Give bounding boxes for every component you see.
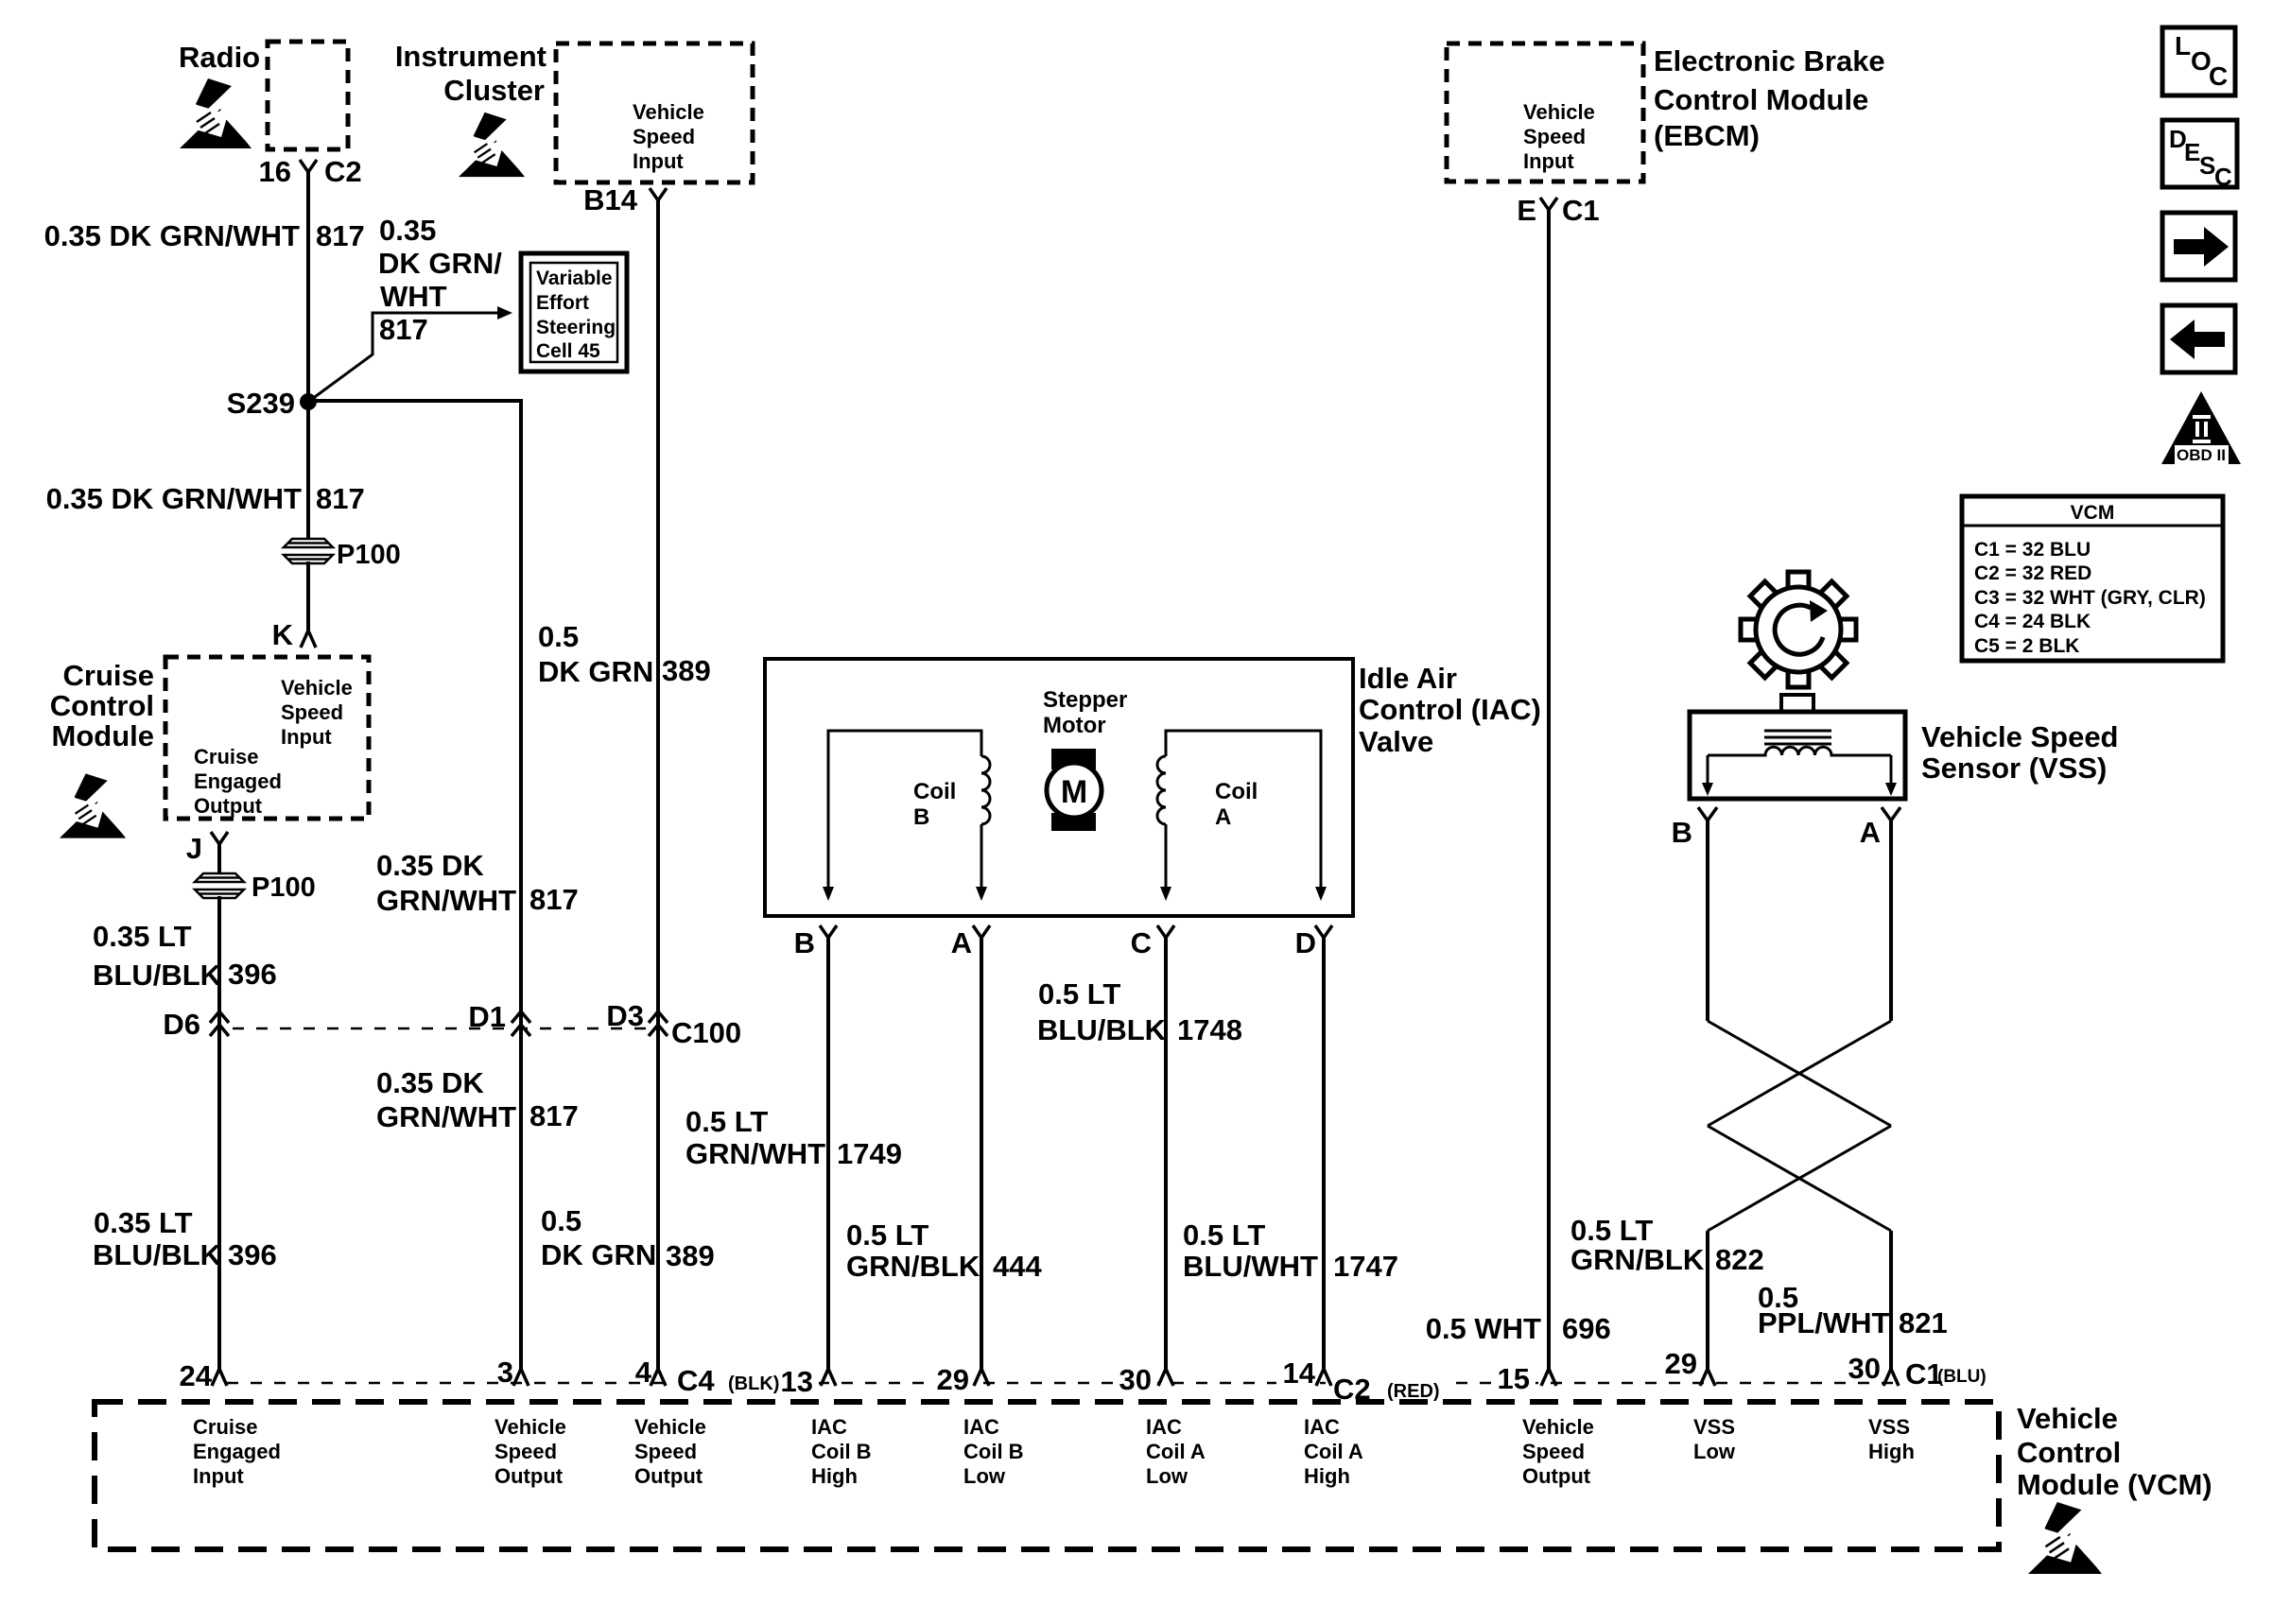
connector C100 dashed line <box>233 1028 649 1030</box>
svg-text:C100: C100 <box>671 1016 741 1049</box>
svg-text:389: 389 <box>662 654 711 687</box>
svg-text:(EBCM): (EBCM) <box>1654 119 1760 152</box>
svg-text:0.5 WHT: 0.5 WHT <box>1426 1312 1541 1345</box>
svg-text:Speed: Speed <box>634 1440 697 1463</box>
svg-text:817: 817 <box>529 1099 579 1132</box>
svg-text:B14: B14 <box>583 183 638 216</box>
wire VSS A down <box>1889 821 1893 1021</box>
svg-text:821: 821 <box>1899 1306 1948 1339</box>
svg-text:C2: C2 <box>324 155 362 188</box>
svg-text:Coil: Coil <box>1215 779 1258 804</box>
svg-text:0.35 DK GRN/WHT: 0.35 DK GRN/WHT <box>44 219 300 252</box>
VCM pin row dashed line <box>227 1382 1897 1385</box>
svg-text:C5 = 2 BLK: C5 = 2 BLK <box>1974 635 2079 657</box>
svg-text:0.5 LT: 0.5 LT <box>846 1218 928 1252</box>
ESD symbol (VCM) <box>2028 1502 2105 1574</box>
Electronic Brake Control Module (EBCM) dashed box <box>1447 43 1643 181</box>
svg-text:Engaged: Engaged <box>194 769 282 793</box>
DESC icon <box>2162 120 2237 187</box>
svg-text:(RED): (RED) <box>1387 1381 1440 1402</box>
svg-text:Motor: Motor <box>1043 713 1106 738</box>
connector D3 chevrons <box>649 1011 668 1036</box>
svg-text:14: 14 <box>1283 1356 1316 1390</box>
LOC icon <box>2162 27 2235 95</box>
svg-text:Cluster: Cluster <box>443 74 545 107</box>
svg-text:PPL/WHT: PPL/WHT <box>1758 1306 1890 1339</box>
svg-text:C2 = 32 RED: C2 = 32 RED <box>1974 562 2091 584</box>
svg-text:GRN/WHT: GRN/WHT <box>376 1100 516 1133</box>
svg-text:Vehicle: Vehicle <box>633 100 704 124</box>
svg-text:0.5: 0.5 <box>541 1204 581 1237</box>
svg-text:24: 24 <box>180 1359 213 1392</box>
Vehicle Control Module (VCM) dashed box <box>95 1402 1999 1549</box>
pin K connector <box>301 631 316 648</box>
svg-text:Output: Output <box>495 1464 564 1488</box>
svg-text:L: L <box>2175 31 2191 60</box>
pass-through grommet P100 (lower) <box>195 873 244 898</box>
svg-text:Coil B: Coil B <box>811 1440 872 1463</box>
svg-text:0.35 DK: 0.35 DK <box>376 849 484 882</box>
label masks over dashed line <box>671 1359 1536 1405</box>
VSS coil <box>1708 747 1891 755</box>
svg-text:Vehicle: Vehicle <box>2017 1402 2118 1435</box>
forward arrow icon <box>2162 213 2235 280</box>
svg-text:Coil A: Coil A <box>1304 1440 1363 1463</box>
wire 821 to VCM 30 <box>1889 1231 1893 1369</box>
wire 817 from S239 branch down to VCM pin 3 <box>308 401 521 1369</box>
svg-text:C: C <box>2209 61 2228 91</box>
wire 822 to VCM 29 <box>1706 1231 1709 1369</box>
svg-text:0.5 LT: 0.5 LT <box>1183 1218 1265 1252</box>
svg-text:High: High <box>811 1464 858 1488</box>
svg-text:BLU/BLK: BLU/BLK <box>93 1238 222 1271</box>
svg-text:Output: Output <box>1522 1464 1591 1488</box>
svg-text:30: 30 <box>1848 1352 1881 1385</box>
svg-text:389: 389 <box>666 1239 715 1272</box>
svg-text:Coil B: Coil B <box>963 1440 1024 1463</box>
wire IAC A to VCM 29 <box>980 938 983 1369</box>
svg-text:29: 29 <box>1665 1347 1697 1380</box>
svg-text:0.35 DK GRN/WHT: 0.35 DK GRN/WHT <box>46 482 302 515</box>
svg-text:Electronic Brake: Electronic Brake <box>1654 44 1885 78</box>
svg-text:E: E <box>1517 194 1536 227</box>
svg-text:GRN/WHT: GRN/WHT <box>685 1137 825 1170</box>
svg-text:P100: P100 <box>252 872 316 903</box>
Variable Effort Steering Cell 45 reference box <box>521 253 627 371</box>
svg-text:Low: Low <box>1146 1464 1189 1488</box>
svg-text:Control Module: Control Module <box>1654 83 1868 116</box>
svg-text:Vehicle Speed: Vehicle Speed <box>1921 720 2119 753</box>
svg-text:0.5 LT: 0.5 LT <box>1038 977 1120 1011</box>
svg-text:1747: 1747 <box>1333 1250 1398 1283</box>
coil A <box>1166 731 1321 889</box>
svg-text:Variable: Variable <box>536 268 613 289</box>
svg-text:DK GRN: DK GRN <box>538 655 653 688</box>
svg-text:Cruise: Cruise <box>193 1415 257 1439</box>
svg-text:A: A <box>1860 816 1881 849</box>
svg-text:B: B <box>913 804 929 830</box>
svg-text:Module (VCM): Module (VCM) <box>2017 1468 2212 1501</box>
svg-text:Coil: Coil <box>913 779 956 804</box>
svg-text:M: M <box>1061 774 1087 810</box>
svg-text:817: 817 <box>529 883 579 916</box>
svg-text:C1: C1 <box>1562 194 1600 227</box>
svg-text:C4: C4 <box>677 1364 715 1397</box>
wire P100 to K <box>306 561 310 631</box>
twisted pair crossover <box>1708 1021 1891 1231</box>
svg-text:Speed: Speed <box>495 1440 557 1463</box>
svg-text:C: C <box>2214 163 2232 191</box>
svg-text:Control (IAC): Control (IAC) <box>1359 693 1541 726</box>
svg-text:IAC: IAC <box>1304 1415 1340 1439</box>
svg-text:Input: Input <box>193 1464 244 1488</box>
svg-text:Speed: Speed <box>1523 125 1586 148</box>
svg-text:D1: D1 <box>468 1000 506 1033</box>
svg-text:Input: Input <box>1523 149 1574 173</box>
svg-text:1748: 1748 <box>1177 1013 1242 1046</box>
svg-text:Module: Module <box>52 719 155 752</box>
svg-text:Instrument: Instrument <box>395 40 547 73</box>
svg-text:Speed: Speed <box>1522 1440 1585 1463</box>
svg-text:Vehicle: Vehicle <box>281 676 353 700</box>
svg-text:13: 13 <box>781 1365 813 1398</box>
svg-text:Cell 45: Cell 45 <box>536 340 600 362</box>
svg-text:BLU/BLK: BLU/BLK <box>1037 1013 1167 1046</box>
wire 396 from P100 to VCM pin 24 <box>217 896 221 1369</box>
svg-text:A: A <box>1215 804 1231 830</box>
pin E connector <box>1540 198 1557 210</box>
svg-text:Cruise: Cruise <box>194 745 258 769</box>
VSS core lines <box>1764 730 1831 733</box>
svg-text:Engaged: Engaged <box>193 1440 281 1463</box>
svg-text:822: 822 <box>1715 1243 1764 1276</box>
wire 696 from EBCM to VCM 15 <box>1547 210 1551 1369</box>
svg-text:A: A <box>951 926 972 959</box>
svg-text:Effort: Effort <box>536 292 589 314</box>
svg-text:Cruise: Cruise <box>63 659 154 692</box>
svg-text:VSS: VSS <box>1868 1415 1910 1439</box>
wire 817 from radio C2 to S239 <box>306 172 310 402</box>
svg-text:Input: Input <box>281 725 332 749</box>
svg-text:B: B <box>1672 816 1692 849</box>
svg-text:15: 15 <box>1498 1362 1530 1395</box>
svg-text:Stepper: Stepper <box>1043 687 1127 713</box>
svg-text:444: 444 <box>993 1250 1042 1283</box>
svg-text:Radio: Radio <box>179 41 260 74</box>
svg-text:K: K <box>272 618 294 651</box>
svg-text:0.35 LT: 0.35 LT <box>93 920 192 953</box>
svg-text:GRN/WHT: GRN/WHT <box>376 884 516 917</box>
wire J to P100 <box>217 844 221 875</box>
svg-text:0.35: 0.35 <box>379 214 436 247</box>
svg-text:BLU/BLK: BLU/BLK <box>93 959 222 992</box>
svg-text:0.35 DK: 0.35 DK <box>376 1066 484 1099</box>
wire branch from S239 to Variable Effort Steering arrow <box>308 313 498 402</box>
svg-text:Vehicle: Vehicle <box>1523 100 1595 124</box>
svg-text:E: E <box>2184 138 2200 166</box>
svg-text:DK GRN/: DK GRN/ <box>378 247 502 280</box>
svg-text:Vehicle: Vehicle <box>1522 1415 1594 1439</box>
wire from S239 down to P100 <box>306 402 310 541</box>
svg-text:Input: Input <box>633 149 684 173</box>
Instrument Cluster dashed box <box>556 43 753 182</box>
svg-text:GRN/BLK: GRN/BLK <box>1570 1243 1705 1276</box>
wire 389 from B14 to VCM pin 4 <box>656 200 660 1369</box>
connector D6 chevrons <box>210 1011 229 1036</box>
svg-text:C3 = 32 WHT (GRY, CLR): C3 = 32 WHT (GRY, CLR) <box>1974 587 2206 609</box>
svg-text:0.5 LT: 0.5 LT <box>685 1105 768 1138</box>
wire VSS B down <box>1706 821 1709 1021</box>
svg-text:Output: Output <box>194 794 263 818</box>
wire 444 IAC B to VCM 13 <box>826 938 830 1369</box>
svg-text:High: High <box>1868 1440 1915 1463</box>
svg-text:IAC: IAC <box>963 1415 999 1439</box>
ESD symbol (Radio) <box>180 78 254 148</box>
svg-text:P100: P100 <box>337 540 401 570</box>
svg-text:BLU/WHT: BLU/WHT <box>1183 1250 1318 1283</box>
svg-text:VCM: VCM <box>2071 502 2115 524</box>
svg-text:817: 817 <box>316 482 365 515</box>
svg-text:J: J <box>186 832 202 865</box>
svg-text:4: 4 <box>635 1356 652 1389</box>
svg-text:Speed: Speed <box>281 700 343 724</box>
svg-text:IAC: IAC <box>1146 1415 1182 1439</box>
ESD symbol (Cruise Control Module) <box>60 773 129 838</box>
svg-text:Idle Air: Idle Air <box>1359 662 1457 695</box>
VCM connector table <box>1962 496 2223 661</box>
coil B <box>828 731 981 889</box>
svg-text:High: High <box>1304 1464 1350 1488</box>
svg-text:(BLU): (BLU) <box>1937 1367 1987 1387</box>
svg-text:D: D <box>1295 926 1316 959</box>
svg-text:817: 817 <box>379 313 428 346</box>
svg-text:0.5 LT: 0.5 LT <box>1570 1214 1653 1247</box>
svg-text:C4 = 24 BLK: C4 = 24 BLK <box>1974 611 2091 632</box>
svg-text:0.35 LT: 0.35 LT <box>94 1206 193 1239</box>
svg-text:30: 30 <box>1119 1363 1152 1396</box>
Vehicle Speed Sensor (VSS) <box>1781 695 1813 714</box>
reluctor gear icon <box>1741 572 1856 687</box>
svg-text:C1 = 32 BLU: C1 = 32 BLU <box>1974 539 2091 561</box>
svg-text:Valve: Valve <box>1359 725 1433 758</box>
svg-text:S239: S239 <box>227 387 295 420</box>
svg-text:Vehicle: Vehicle <box>634 1415 706 1439</box>
svg-text:Steering: Steering <box>536 317 616 338</box>
svg-text:Low: Low <box>963 1464 1006 1488</box>
svg-text:696: 696 <box>1562 1312 1611 1345</box>
svg-text:817: 817 <box>316 219 365 252</box>
svg-text:WHT: WHT <box>380 280 447 313</box>
svg-text:DK GRN: DK GRN <box>541 1238 656 1271</box>
stepper motor M <box>1051 749 1096 769</box>
svg-text:Vehicle: Vehicle <box>495 1415 566 1439</box>
Radio module dashed box <box>268 42 348 149</box>
Cruise Control Module dashed box <box>165 657 369 819</box>
svg-text:Control: Control <box>50 689 154 722</box>
svg-text:0.5: 0.5 <box>538 620 579 653</box>
svg-text:B: B <box>794 926 815 959</box>
wire IAC C to VCM 30 <box>1164 938 1168 1369</box>
svg-text:396: 396 <box>228 958 277 991</box>
connector C2 pin Y <box>300 160 317 172</box>
svg-text:396: 396 <box>228 1238 277 1271</box>
OBD II icon <box>2161 391 2241 464</box>
pass-through grommet P100 <box>284 539 333 563</box>
svg-text:Coil A: Coil A <box>1146 1440 1206 1463</box>
svg-text:Low: Low <box>1693 1440 1736 1463</box>
pin J connector <box>211 832 228 844</box>
splice S239 <box>300 393 317 410</box>
svg-text:GRN/BLK: GRN/BLK <box>846 1250 980 1283</box>
ESD symbol (Instrument Cluster) <box>459 112 528 177</box>
svg-text:OBD II: OBD II <box>2177 446 2226 464</box>
svg-text:Control: Control <box>2017 1436 2121 1469</box>
svg-text:Sensor (VSS): Sensor (VSS) <box>1921 752 2107 785</box>
svg-text:16: 16 <box>259 155 291 188</box>
wire IAC D to VCM 14 <box>1322 938 1326 1369</box>
svg-text:S: S <box>2199 151 2215 180</box>
svg-text:VSS: VSS <box>1693 1415 1735 1439</box>
svg-text:1749: 1749 <box>837 1137 902 1170</box>
svg-text:D6: D6 <box>163 1008 200 1041</box>
back arrow icon <box>2162 305 2235 372</box>
svg-text:29: 29 <box>937 1363 969 1396</box>
svg-text:3: 3 <box>497 1356 513 1389</box>
connector D1 chevrons <box>512 1011 530 1036</box>
svg-text:Speed: Speed <box>633 125 695 148</box>
svg-text:(BLK): (BLK) <box>728 1373 779 1394</box>
svg-text:IAC: IAC <box>811 1415 847 1439</box>
svg-text:Output: Output <box>634 1464 703 1488</box>
pin B14 connector <box>650 188 667 200</box>
svg-text:D3: D3 <box>606 999 644 1032</box>
svg-text:C: C <box>1131 926 1152 959</box>
Idle Air Control (IAC) Valve box <box>765 659 1353 916</box>
